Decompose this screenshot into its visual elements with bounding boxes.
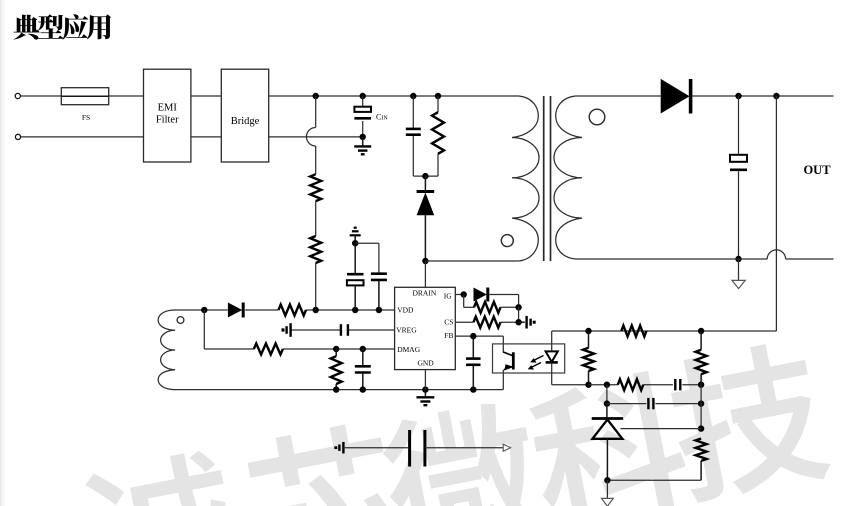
wire: top rail to CIN: [362, 96, 364, 107]
wire: DC bus top rail: [269, 95, 519, 97]
middle line capacitor: [675, 379, 680, 390]
output rectifier diode: [661, 79, 691, 114]
aux winding polarity dot: [177, 317, 184, 324]
wire: startup branch vertical with hop over bottom rail: [306, 96, 315, 174]
block: Bridge rectifier: [221, 69, 268, 162]
input terminal L (top): [15, 93, 20, 98]
junction dots on top rail: [313, 93, 442, 99]
ground below CIN: [354, 137, 371, 154]
watermark text 诚芯微科技 (light gray, rotated): [76, 336, 834, 506]
junction dots on OUT rail: [735, 93, 779, 99]
startup resistor R1 (upper): [310, 174, 321, 201]
block: EMI Filter: [144, 69, 191, 162]
label CIN: [376, 113, 388, 122]
wire: LED cathode down: [552, 362, 589, 384]
wire: IG parallel branch: [464, 295, 474, 308]
wire: EMI to Bridge (bottom): [191, 136, 221, 138]
title 典型应用: [14, 14, 112, 39]
wire: cap top node: [355, 243, 379, 274]
optocoupler body: [493, 344, 565, 373]
wire: DRAIN pin to node: [424, 261, 426, 287]
wire: snubber bottom join: [413, 173, 438, 179]
ground (right) at CS: [527, 316, 535, 329]
fuse FS: [61, 88, 108, 105]
wire: right node vertical: [698, 385, 704, 432]
upper divider resistor: [696, 331, 707, 385]
wire: top rail to snubber cap: [412, 96, 414, 128]
wire: IG node down to CS node: [518, 307, 520, 322]
wire: IC GND pin to rail: [424, 370, 426, 390]
feedback sense resistor (top line): [621, 326, 646, 337]
wire: DMAG resistor to IC: [283, 348, 395, 350]
wire: L terminal to fuse: [21, 95, 62, 97]
wire: CS pin: [455, 321, 473, 323]
wire: secondary top to output diode: [576, 95, 661, 97]
wire: CS node to ground: [519, 321, 525, 323]
pin label IG: [444, 292, 452, 301]
pin label VDD: [397, 305, 414, 314]
TL431 ground symbol: [602, 480, 614, 506]
snubber resistor: [432, 112, 444, 154]
svg-text:Filter: Filter: [156, 115, 179, 126]
label FS: [82, 113, 90, 122]
opto light arrows: [528, 356, 544, 370]
svg-text:GND: GND: [417, 359, 434, 368]
transformer T1 primary winding: [512, 96, 539, 261]
VDD bulk capacitor (electrolytic): [347, 243, 364, 310]
junction dots on VDD rail: [313, 307, 383, 313]
wire: divider bottom return: [604, 477, 701, 483]
wire: Y-capacitor to secondary ground arrow: [425, 447, 503, 449]
compensation capacitor: [607, 398, 704, 409]
pin label GND: [417, 359, 434, 368]
wire: primary ground rail: [173, 389, 503, 391]
FB filter capacitor: [466, 336, 481, 390]
opto bias resistor: [583, 331, 594, 388]
wire: output diode to OUT rail: [692, 95, 834, 97]
auxiliary winding: [158, 310, 175, 390]
wire: middle resistor to cap: [643, 384, 673, 386]
node: drain / primary-bottom junction: [422, 258, 428, 264]
node above VDD caps: [352, 240, 358, 246]
input terminal N (bottom): [15, 134, 20, 139]
middle line resistor: [618, 379, 644, 390]
ground (left) at Y-capacitor: [336, 442, 344, 454]
wire: opto emitter to ground rail: [502, 370, 504, 390]
wire: snubber cap to clamp node: [412, 136, 414, 176]
wire: startup chain to VDD rail: [315, 263, 317, 310]
wire: output capacitor to return rail: [735, 171, 741, 262]
pin label FB: [444, 331, 453, 340]
wire: IG diode to corner: [489, 295, 518, 308]
CS resistor: [474, 317, 501, 328]
pin label CS: [444, 318, 453, 327]
arrow to secondary ground: [503, 444, 510, 451]
secondary polarity dot: [589, 109, 605, 125]
svg-text:EMI: EMI: [158, 103, 178, 114]
wire: IG resistor to node: [501, 304, 522, 310]
junction dots on feedback sense line: [585, 328, 704, 334]
VDD ceramic capacitor: [371, 274, 387, 310]
wire: aux winding to VDD diode: [173, 307, 228, 313]
wire: fuse to EMI filter: [109, 95, 144, 97]
DMAG shunt resistor: [331, 349, 342, 390]
ground (left) at VREG: [283, 323, 291, 337]
pin label DMAG: [397, 345, 421, 354]
wire: VDD rail into IC: [306, 309, 395, 311]
junction dots on DMAG line: [333, 346, 366, 352]
wire: OUT rail to output capacitor: [738, 96, 740, 155]
lower divider resistor: [696, 439, 707, 481]
wire: feedback sense drop from OUT+: [552, 96, 777, 331]
svg-text:OUT: OUT: [803, 163, 831, 177]
primary polarity dot: [501, 235, 513, 247]
DMAG shunt capacitor: [355, 349, 371, 390]
Y-capacitor (primary-secondary): [410, 430, 425, 467]
IG diode: [474, 288, 488, 302]
wire: top rail to snubber resistor: [437, 96, 439, 112]
primary ground symbol: [417, 390, 435, 406]
svg-text:FB: FB: [444, 331, 453, 340]
IG parallel resistor: [474, 302, 500, 313]
svg-text:Bridge: Bridge: [231, 116, 260, 127]
wire between startup resistors: [315, 201, 317, 236]
label OUT: [803, 163, 831, 177]
wire: clamp node to primary winding bottom: [425, 260, 518, 262]
secondary ground symbol: [732, 259, 745, 289]
wire: aux tap down to DMAG line: [203, 310, 205, 349]
DMAG series resistor: [254, 344, 283, 355]
wire: secondary return rail with hop: [576, 250, 834, 259]
wire: VREG cap to ground: [291, 329, 341, 331]
VDD rectifier diode: [228, 303, 243, 318]
opto phototransistor: [503, 351, 513, 370]
output capacitor (electrolytic): [730, 155, 747, 170]
wire: snubber resistor to clamp node: [437, 154, 439, 176]
inverted ground above VDD caps: [350, 228, 361, 244]
pin label VREG: [396, 325, 417, 334]
svg-text:VDD: VDD: [397, 305, 414, 314]
junction dots on ground rail: [333, 386, 476, 392]
opto LED: [546, 351, 558, 362]
shunt regulator TL431: [592, 404, 624, 481]
snubber capacitor: [406, 129, 421, 135]
pin label DRAIN: [413, 288, 437, 297]
wire: ground to Y-capacitor: [343, 447, 408, 449]
wire: middle cap to right node: [682, 382, 704, 388]
startup resistor R2 (lower): [310, 236, 321, 263]
svg-text:VREG: VREG: [396, 325, 417, 334]
wire: VREG pin: [348, 329, 395, 331]
wire: N terminal to EMI filter: [21, 136, 144, 138]
capacitor CIN (electrolytic): [354, 107, 371, 119]
wire: DMAG line: [204, 348, 254, 350]
transformer T1 core: [544, 96, 551, 261]
wire: FB pin to optocoupler: [455, 333, 503, 352]
VDD series resistor: [278, 305, 306, 316]
wire: TL431 branch: [604, 385, 610, 407]
wire segments on feedback sense line: [0, 0, 1, 1]
wire: CIN to bottom rail: [360, 121, 366, 140]
wire: DC bus bottom rail: [269, 136, 363, 138]
wire: CS resistor to node: [501, 319, 522, 325]
VREG capacitor: [341, 324, 348, 336]
wire: middle line: [589, 382, 618, 388]
transformer T1 secondary winding: [554, 96, 582, 259]
svg-text:IG: IG: [444, 292, 452, 301]
wire: EMI to Bridge (top): [191, 95, 221, 97]
svg-text:DRAIN: DRAIN: [413, 288, 437, 297]
wire: IG pin: [455, 291, 467, 297]
svg-text:CS: CS: [444, 318, 453, 327]
controller IC U1: [395, 287, 456, 369]
wire: LED anode up to feedback line: [551, 331, 553, 351]
wire: diode to VDD resistor: [245, 309, 278, 311]
wire: TL431 reference: [621, 428, 702, 430]
clamp diode (pointing up): [417, 176, 435, 261]
svg-text:FS: FS: [82, 113, 90, 122]
svg-text:DMAG: DMAG: [397, 345, 421, 354]
page left edge shading: [0, 0, 5, 506]
